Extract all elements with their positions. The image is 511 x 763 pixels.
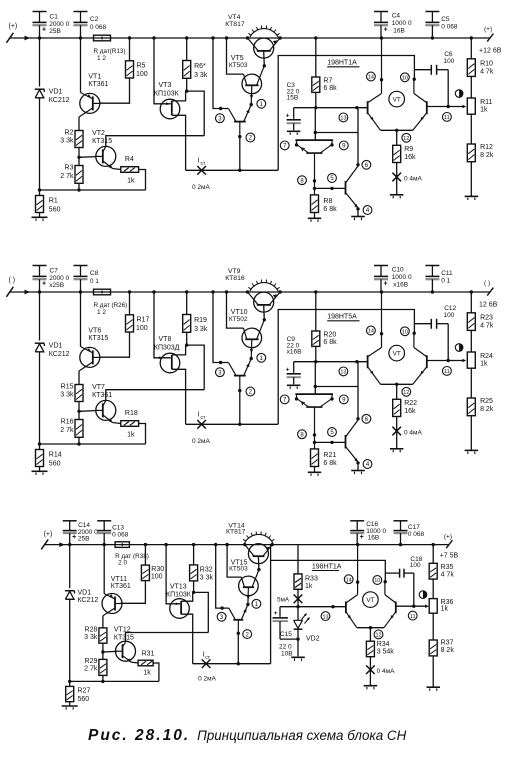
- svg-text:11: 11: [444, 369, 450, 375]
- wire R18 to bus: [139, 424, 146, 445]
- capacitor C7: [33, 266, 47, 293]
- wire node to R16: [78, 411, 80, 419]
- label R25: [480, 398, 494, 413]
- ground below R14: [32, 471, 48, 475]
- label C11: [441, 270, 453, 285]
- label VT11: [111, 576, 131, 590]
- svg-text:VT2: VT2: [92, 130, 105, 137]
- svg-text:0 4мА: 0 4мА: [377, 668, 396, 675]
- wire rail to VT3 gate: [154, 292, 171, 359]
- wire R32 to node: [192, 581, 195, 594]
- svg-text:+12 6В: +12 6В: [479, 48, 502, 55]
- svg-text:КТ361: КТ361: [88, 81, 108, 88]
- svg-text:0 2мА: 0 2мА: [192, 438, 211, 445]
- pin 7: [280, 141, 289, 150]
- wire VD1 to bottom node: [38, 98, 41, 192]
- capacitor C3: [286, 108, 301, 131]
- wire R27 to ground: [69, 702, 71, 706]
- wire rail to VT1 emitter: [103, 545, 105, 594]
- transistor VT2: [96, 146, 116, 168]
- pin 9: [339, 141, 348, 150]
- svg-text:КП103К: КП103К: [154, 90, 180, 97]
- svg-text:R31: R31: [142, 651, 155, 658]
- transistor IC diff pair right: [413, 332, 427, 385]
- wire R9 to ground with 0.4mA mark: [392, 163, 401, 195]
- svg-text:R1: R1: [49, 198, 58, 205]
- resistor R10: [467, 59, 475, 77]
- label R17: [136, 316, 149, 331]
- pin 14: [344, 575, 353, 584]
- heatsink arc over VT4: [248, 26, 279, 38]
- svg-text:КТ503: КТ503: [229, 62, 248, 69]
- svg-text:КС212: КС212: [49, 97, 70, 104]
- wire R22 to ground with 0.4mA mark: [392, 417, 401, 449]
- svg-text:0 068: 0 068: [112, 532, 129, 539]
- svg-text:16В: 16В: [368, 535, 380, 542]
- pin 1: [257, 353, 266, 362]
- transistor IC diff pair left: [346, 545, 359, 628]
- wire diff pair emitter bus: [381, 129, 413, 132]
- wire bottom-left bus: [40, 188, 146, 191]
- label R34: [377, 641, 395, 655]
- wire potentiometer to R12: [470, 114, 472, 144]
- svg-text:( ): ( ): [484, 280, 490, 287]
- wire R19 to node: [185, 332, 188, 347]
- resistor R21: [311, 449, 319, 467]
- label 5mA: [277, 596, 290, 603]
- label VT8: [154, 336, 180, 352]
- svg-text:R11: R11: [480, 99, 492, 106]
- svg-text:(+): (+): [9, 23, 18, 30]
- svg-text:0 1: 0 1: [90, 278, 99, 285]
- transistor VT8: [160, 353, 180, 373]
- wire node to VT2 collector bus: [187, 91, 205, 136]
- pin 11: [443, 367, 452, 376]
- svg-text:1k: 1k: [305, 583, 313, 590]
- pin 11: [408, 611, 417, 620]
- node output terminal 12 6В: [479, 280, 498, 309]
- node output terminal +7 5В: [440, 533, 459, 559]
- pin 8: [298, 430, 307, 439]
- wire rail to pin-3 transistor collector: [213, 292, 229, 364]
- pin 14: [367, 326, 376, 335]
- label R33: [305, 576, 318, 591]
- svg-text:VT3: VT3: [159, 82, 172, 89]
- svg-text:VD1: VD1: [49, 343, 63, 350]
- resistor R1: [36, 196, 44, 213]
- svg-text:I: I: [198, 158, 200, 165]
- wire R1 to ground: [39, 213, 41, 218]
- svg-text:16k: 16k: [404, 154, 416, 161]
- wire R34 to ground with 0.4mA mark: [366, 657, 375, 686]
- transistor VT14: [245, 544, 272, 564]
- svg-text:VT11: VT11: [111, 576, 127, 583]
- label R5: [136, 62, 148, 77]
- svg-text:R6*: R6*: [194, 63, 206, 70]
- wire R30 to VT1 base: [120, 581, 145, 604]
- svg-text:КТ502: КТ502: [229, 316, 248, 323]
- wire R20 to base line: [314, 346, 317, 363]
- svg-text:198НТ1А: 198НТ1А: [327, 59, 357, 66]
- svg-text:C1: C1: [50, 14, 59, 21]
- label C16: [366, 521, 386, 542]
- svg-text:0 1: 0 1: [441, 277, 450, 284]
- wire rail to VD1: [39, 292, 41, 341]
- label R4: [125, 156, 135, 184]
- label C4: [392, 13, 412, 35]
- label R32: [200, 566, 214, 581]
- svg-text:100: 100: [410, 562, 421, 569]
- wire rail to R23: [470, 292, 472, 313]
- wire R28 to VT2 base node: [101, 643, 117, 654]
- svg-text:11: 11: [444, 115, 450, 121]
- resistor R25: [467, 398, 475, 416]
- svg-text:1000 0: 1000 0: [392, 274, 412, 281]
- svg-text:R23: R23: [480, 314, 493, 321]
- adjustment half-circle mark: [455, 90, 463, 98]
- svg-text:6 8k: 6 8k: [323, 339, 337, 346]
- wire VT1 collector to R15: [78, 371, 80, 385]
- label VT13: [166, 584, 192, 599]
- ground below R22: [390, 449, 404, 453]
- pin 7: [280, 395, 289, 404]
- resistor Rдат: [94, 289, 111, 295]
- resistor R18: [121, 421, 139, 427]
- svg-text:ст: ст: [205, 655, 211, 661]
- wire I_st line with current mark: [186, 166, 279, 175]
- wire rail to R20: [315, 292, 317, 331]
- wire to potentiometer: [470, 330, 472, 352]
- capacitor C1: [33, 12, 47, 39]
- wire R3 to bus: [78, 183, 80, 190]
- pin 1: [252, 599, 261, 608]
- label Rдат: [115, 553, 149, 566]
- wire VT3 source to R32: [181, 592, 193, 601]
- svg-text:R10: R10: [480, 60, 493, 67]
- svg-text:КТ817: КТ817: [226, 529, 246, 536]
- wire rail to VT5 base: [227, 545, 241, 578]
- svg-text:R4: R4: [125, 156, 134, 163]
- transistor VT4: [248, 38, 281, 58]
- label C1 value: [49, 14, 69, 36]
- svg-text:1000 0: 1000 0: [392, 20, 412, 27]
- label VT10: [229, 309, 248, 323]
- resistor Rдат: [94, 35, 111, 41]
- svg-text:+: +: [72, 534, 76, 541]
- label VT4: [225, 14, 245, 28]
- svg-text:3 54k: 3 54k: [377, 648, 395, 655]
- svg-text:1k: 1k: [480, 106, 488, 113]
- capacitor C17: [394, 521, 408, 545]
- svg-text:R5: R5: [137, 62, 146, 69]
- wire VT5 collector to VT4 base: [263, 52, 266, 68]
- transistor VT12: [116, 641, 136, 662]
- wire base line node 13: [294, 360, 368, 363]
- svg-text:14: 14: [346, 578, 352, 584]
- ground below pin 4: [351, 217, 365, 221]
- capacitor C4: [374, 12, 388, 39]
- svg-text:R19: R19: [194, 317, 207, 324]
- svg-text:КТ503: КТ503: [229, 566, 248, 573]
- resistor R30: [141, 565, 149, 581]
- resistor R19: [183, 315, 191, 333]
- svg-text:+: +: [42, 27, 46, 34]
- label VT14: [226, 523, 246, 536]
- svg-text:КТ817: КТ817: [225, 21, 245, 28]
- resistor R9: [393, 145, 401, 162]
- svg-text:(+): (+): [44, 531, 53, 538]
- wire bus to R22: [396, 384, 398, 399]
- svg-text:C4: C4: [392, 13, 401, 20]
- wire diff pair emitter bus: [381, 383, 413, 386]
- svg-text:x25В: x25В: [49, 282, 64, 289]
- wire node to VT2 collector bus: [194, 592, 209, 632]
- label C2 value: [90, 16, 107, 31]
- label R30: [151, 566, 164, 581]
- svg-text:0 4мА: 0 4мА: [404, 176, 423, 183]
- wire diff pair to potentiometer wiper: [427, 359, 466, 362]
- label C6: [444, 51, 455, 65]
- label I_st value: [198, 676, 217, 683]
- junction dots on supply rail: [38, 36, 473, 39]
- wire diff pair to potentiometer wiper: [396, 605, 429, 609]
- svg-text:+: +: [360, 534, 364, 541]
- svg-text:R9: R9: [404, 146, 413, 153]
- wire pin 8 to pin 5 transistor: [315, 187, 346, 190]
- svg-text:100: 100: [136, 71, 148, 78]
- svg-text:R22: R22: [404, 400, 417, 407]
- transistor IC diff pair left: [368, 38, 384, 130]
- svg-text:13: 13: [340, 116, 346, 122]
- svg-text:4 7k: 4 7k: [480, 322, 494, 329]
- svg-text:VT: VT: [393, 97, 401, 104]
- svg-text:R37: R37: [441, 640, 454, 647]
- wire VT2 emitter to R31: [131, 661, 138, 664]
- label VT1: [88, 73, 108, 88]
- label I_st value: [192, 438, 211, 445]
- wire VT1 collector to R28: [102, 616, 104, 628]
- svg-text:+: +: [383, 281, 387, 288]
- wire R2 to VT2 base node: [77, 148, 96, 160]
- svg-text:R20: R20: [323, 331, 336, 338]
- adjustment half-circle mark: [419, 591, 427, 599]
- capacitor C11: [425, 266, 439, 293]
- node input terminal (+): [6, 23, 30, 43]
- wire diff pair emitter bus: [357, 626, 384, 629]
- svg-text:C15: C15: [280, 631, 292, 638]
- svg-text:VT6: VT6: [88, 327, 101, 334]
- svg-text:12: 12: [403, 136, 409, 142]
- transistor VT3: [160, 99, 180, 119]
- svg-text:R8: R8: [323, 198, 332, 205]
- transistor VT9: [248, 292, 281, 312]
- label 0.4mA: [404, 176, 423, 183]
- wire VT3 drain down: [172, 115, 186, 170]
- label R22: [404, 400, 417, 415]
- capacitor C13: [97, 521, 111, 545]
- wire rail to VT1 emitter: [80, 292, 82, 347]
- capacitor C6: [414, 65, 448, 107]
- svg-text:C11: C11: [441, 270, 453, 277]
- wire node 13 base line: [280, 605, 346, 608]
- wire VT2 collector bus: [106, 136, 204, 147]
- label VT15: [229, 559, 248, 572]
- svg-text:0 2мА: 0 2мА: [198, 676, 217, 683]
- pin 9: [339, 395, 348, 404]
- resistor R12: [467, 144, 475, 162]
- label VT circle IC marker: [389, 345, 405, 361]
- wire bus to R9: [396, 130, 398, 145]
- svg-text:15В: 15В: [287, 95, 299, 102]
- svg-text:3 3k: 3 3k: [194, 326, 208, 333]
- pin 6: [362, 414, 371, 423]
- transistor VT7: [96, 400, 116, 422]
- svg-text:1k: 1k: [127, 178, 135, 185]
- label VD2: [306, 636, 320, 643]
- svg-text:VD1: VD1: [78, 590, 92, 597]
- wire rail to R35: [432, 545, 434, 564]
- wire rail to pin-3 transistor collector: [216, 545, 229, 610]
- svg-text:R7: R7: [323, 77, 332, 84]
- label C17: [408, 524, 425, 538]
- wire bottom-left bus: [40, 442, 146, 445]
- wire rail to R7: [315, 38, 317, 77]
- svg-text:10: 10: [402, 76, 408, 82]
- svg-text:C7: C7: [50, 268, 59, 275]
- wire R31 to bus: [153, 663, 159, 681]
- wire rail to pin-3 transistor collector: [213, 38, 229, 110]
- resistor R15: [75, 385, 83, 402]
- transistor IC diff pair left: [368, 292, 384, 384]
- wire R29 to bus: [102, 675, 104, 681]
- svg-text:14: 14: [368, 75, 374, 81]
- pin 5: [328, 174, 337, 183]
- svg-text:100: 100: [444, 312, 455, 319]
- svg-text:16k: 16k: [404, 408, 416, 415]
- label R9: [404, 146, 416, 161]
- svg-text:R29: R29: [85, 658, 98, 665]
- label C3: [287, 82, 300, 102]
- svg-text:3 3k: 3 3k: [194, 72, 208, 79]
- wire rail to R33: [297, 544, 299, 574]
- svg-text:КТ315: КТ315: [92, 138, 112, 145]
- label IC 198НТ1А: [312, 563, 342, 570]
- transistor VT5: [242, 66, 264, 105]
- svg-text:3 3k: 3 3k: [60, 392, 74, 399]
- svg-text:R25: R25: [480, 398, 493, 405]
- svg-text:+: +: [274, 610, 278, 617]
- svg-text:R28: R28: [85, 627, 98, 634]
- svg-text:0 068: 0 068: [90, 24, 107, 31]
- wire pin-2 to I_st line: [237, 633, 239, 663]
- label R2: [60, 130, 74, 145]
- wire VT2 emitter to R4: [113, 169, 121, 170]
- svg-text:R34: R34: [377, 641, 390, 648]
- ground below R27: [62, 706, 78, 710]
- wire top supply rail: [10, 291, 490, 293]
- svg-text:x16В: x16В: [393, 282, 408, 289]
- transistor IC pins 1-2-3: [229, 103, 253, 138]
- svg-text:КТ816: КТ816: [225, 275, 245, 282]
- capacitor C10: [374, 266, 388, 293]
- svg-text:R24: R24: [480, 353, 493, 360]
- pin 6: [362, 160, 371, 169]
- svg-text:R дат(R13): R дат(R13): [94, 48, 126, 55]
- label C7 value: [49, 268, 69, 290]
- ground below C9: [287, 385, 301, 389]
- resistor R35: [429, 563, 437, 579]
- svg-text:14: 14: [368, 329, 374, 335]
- label R27: [78, 688, 91, 703]
- svg-text:C8: C8: [90, 270, 99, 277]
- label R12: [480, 144, 494, 159]
- wire pin 4 to ground: [357, 209, 359, 217]
- label IC 198НТ1А: [327, 59, 359, 67]
- ground below R37: [427, 687, 441, 691]
- wire to R1: [39, 190, 41, 196]
- wire to potentiometer: [432, 579, 434, 598]
- label I_st value: [192, 184, 211, 191]
- ground below R21: [308, 472, 321, 476]
- svg-text:11: 11: [410, 614, 416, 620]
- svg-text:0 068: 0 068: [441, 23, 458, 30]
- wire I_st line up and over to node 10: [278, 56, 414, 171]
- label VT7: [92, 384, 112, 399]
- svg-text:2 7k: 2 7k: [60, 173, 74, 180]
- ground below R34: [364, 686, 378, 690]
- label C13 value: [112, 524, 129, 538]
- svg-text:ст: ст: [201, 415, 207, 421]
- capacitor C15: [273, 607, 298, 639]
- svg-text:6 8k: 6 8k: [323, 460, 337, 467]
- wire VD1 to bottom node: [68, 598, 71, 683]
- svg-text:12: 12: [403, 390, 409, 396]
- wire R4 to bus: [139, 170, 146, 191]
- resistor R28: [99, 628, 107, 643]
- svg-text:I: I: [198, 412, 200, 419]
- svg-text:100: 100: [444, 58, 455, 65]
- svg-text:3 3k: 3 3k: [84, 634, 98, 641]
- wire rail to VT3 gate: [154, 38, 171, 105]
- svg-text:C10: C10: [392, 267, 404, 274]
- label R19: [194, 317, 208, 333]
- svg-text:8 2k: 8 2k: [480, 406, 494, 413]
- svg-text:3 3k: 3 3k: [60, 138, 74, 145]
- resistor R14: [36, 450, 44, 467]
- svg-text:1 2: 1 2: [97, 309, 106, 316]
- pin 13: [339, 113, 348, 122]
- svg-text:(+): (+): [444, 533, 452, 540]
- svg-text:КП103К: КП103К: [166, 591, 192, 598]
- resistor Rдат: [115, 542, 129, 548]
- svg-text:2 0: 2 0: [118, 559, 127, 566]
- svg-text:VT: VT: [393, 351, 401, 358]
- svg-text:КТ315: КТ315: [114, 634, 134, 641]
- wire potentiometer to R25: [470, 368, 472, 398]
- wire I_st line with current mark: [186, 420, 279, 429]
- transistor IC pins 4-5-6: [346, 417, 360, 465]
- wire rail to VT1 emitter: [80, 38, 82, 93]
- ground below R8: [308, 218, 321, 222]
- pin 2: [246, 387, 255, 396]
- label R6*: [194, 63, 208, 79]
- svg-text:100: 100: [136, 325, 148, 332]
- label R24: [480, 353, 493, 368]
- label R23: [480, 314, 494, 329]
- wire to input pair block: [314, 108, 316, 140]
- pin 2: [243, 630, 252, 639]
- svg-text:2 7k: 2 7k: [60, 427, 74, 434]
